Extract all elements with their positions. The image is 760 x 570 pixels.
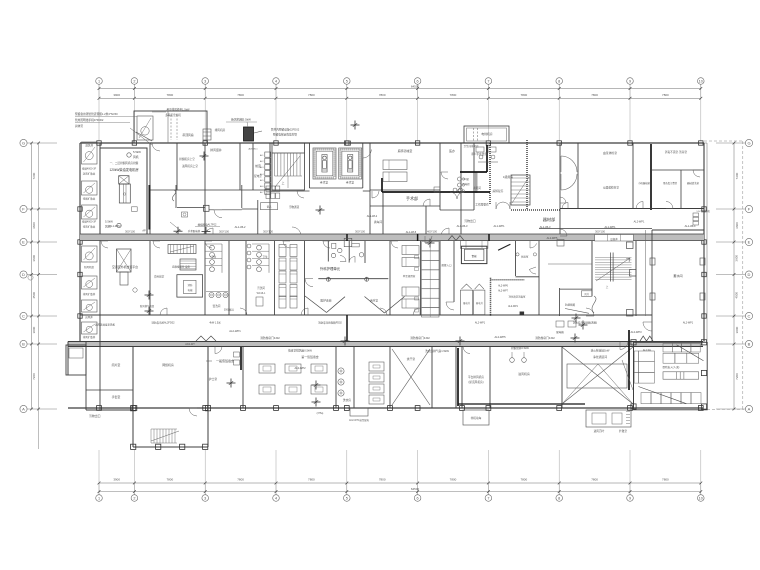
svg-text:疏散楼梯间·设备: 疏散楼梯间·设备 bbox=[172, 265, 190, 269]
svg-text:7: 7 bbox=[487, 497, 489, 501]
svg-text:10: 10 bbox=[699, 80, 703, 84]
svg-text:WC16-1: WC16-1 bbox=[257, 292, 266, 295]
svg-text:64500: 64500 bbox=[411, 84, 420, 88]
svg-text:排烟4000-3F: 排烟4000-3F bbox=[82, 220, 97, 224]
svg-text:配电箱: 配电箱 bbox=[556, 330, 564, 334]
svg-text:工作服更衣: 工作服更衣 bbox=[475, 203, 489, 207]
svg-text:(屋顶风机房): (屋顶风机房) bbox=[468, 380, 483, 384]
svg-text:AL1-WL3: AL1-WL3 bbox=[457, 224, 468, 228]
svg-text:上: 上 bbox=[282, 181, 285, 185]
svg-text:7800: 7800 bbox=[520, 478, 527, 482]
svg-text:7800: 7800 bbox=[591, 93, 598, 97]
svg-text:AL2-WP1: AL2-WP1 bbox=[634, 221, 645, 224]
svg-text:平台排风机房: 平台排风机房 bbox=[468, 375, 484, 379]
svg-text:医护走廊: 医护走廊 bbox=[320, 299, 331, 303]
svg-text:5: 5 bbox=[346, 497, 348, 501]
svg-text:管井内预留设备02FD02: 管井内预留设备02FD02 bbox=[271, 128, 300, 132]
svg-text:300*100: 300*100 bbox=[263, 230, 274, 234]
svg-text:AL2-WP1: AL2-WP1 bbox=[683, 322, 694, 325]
svg-text:消火栓连接1kW: 消火栓连接1kW bbox=[591, 349, 610, 353]
svg-text:污物出口: 污物出口 bbox=[89, 413, 101, 418]
svg-text:4500: 4500 bbox=[32, 292, 36, 299]
svg-text:3600: 3600 bbox=[32, 255, 36, 262]
svg-text:2: 2 bbox=[133, 80, 135, 84]
svg-text:一、二层排烟风机房排烟: 一、二层排烟风机房排烟 bbox=[110, 161, 139, 165]
svg-text:7800: 7800 bbox=[308, 93, 315, 97]
svg-text:消防卷帘门FJ02: 消防卷帘门FJ02 bbox=[260, 336, 280, 340]
svg-text:烘干室: 烘干室 bbox=[407, 357, 416, 361]
svg-text:污物出口: 污物出口 bbox=[464, 218, 476, 223]
svg-text:B: B bbox=[748, 342, 751, 347]
svg-text:进风井: 进风井 bbox=[85, 144, 93, 148]
svg-text:消毒不需室·暂存室: 消毒不需室·暂存室 bbox=[665, 150, 688, 154]
svg-text:AL2-WP7: AL2-WP7 bbox=[498, 290, 509, 293]
svg-text:AL2-WP2: AL2-WP2 bbox=[294, 366, 306, 370]
svg-text:新风机组5.5kW: 新风机组5.5kW bbox=[231, 117, 251, 122]
svg-text:送风扩散井: 送风扩散井 bbox=[83, 172, 96, 176]
svg-text:用各类污食堂: 用各类污食堂 bbox=[663, 181, 678, 185]
svg-text:AL1-WP2: AL1-WP2 bbox=[109, 224, 121, 228]
svg-text:前室: 前室 bbox=[255, 163, 261, 168]
svg-text:医院出入(人流): 医院出入(人流) bbox=[663, 365, 680, 369]
svg-text:手少手水监测: 手少手水监测 bbox=[471, 152, 487, 156]
svg-text:换车间: 换车间 bbox=[374, 220, 382, 224]
svg-text:7800: 7800 bbox=[520, 93, 527, 97]
svg-text:防潮储藏: 防潮储藏 bbox=[565, 303, 576, 307]
svg-text:一般值班宿舍: 一般值班宿舍 bbox=[216, 358, 234, 363]
svg-text:C: C bbox=[22, 314, 25, 319]
svg-text:手术部: 手术部 bbox=[406, 195, 418, 201]
svg-text:300*100: 300*100 bbox=[125, 230, 136, 234]
svg-text:3C配: 3C配 bbox=[463, 177, 469, 181]
svg-text:B: B bbox=[22, 342, 25, 347]
svg-text:排烟4000-3F: 排烟4000-3F bbox=[82, 167, 97, 171]
svg-text:器械清洗室: 器械清洗室 bbox=[687, 181, 700, 185]
svg-text:7800: 7800 bbox=[591, 478, 598, 482]
svg-text:排烟扩散井: 排烟扩散井 bbox=[83, 197, 96, 201]
svg-text:AC2-WT: AC2-WT bbox=[185, 343, 195, 346]
svg-text:7200: 7200 bbox=[735, 373, 739, 380]
svg-text:蓄水间: 蓄水间 bbox=[673, 273, 682, 278]
svg-text:7800: 7800 bbox=[662, 93, 669, 97]
svg-text:7800: 7800 bbox=[237, 478, 244, 482]
svg-text:换鞋间: 换鞋间 bbox=[473, 186, 481, 190]
svg-text:7800: 7800 bbox=[166, 93, 173, 97]
svg-text:麻醉复苏: 麻醉复苏 bbox=[493, 189, 504, 193]
svg-text:AL2-WP3: AL2-WP3 bbox=[630, 330, 642, 334]
svg-text:盥洗间: 盥洗间 bbox=[213, 304, 221, 308]
svg-text:8: 8 bbox=[558, 80, 560, 84]
svg-text:手术室: 手术室 bbox=[320, 180, 329, 184]
svg-text:400*100: 400*100 bbox=[427, 230, 438, 234]
svg-text:AL1-WL3: AL1-WL3 bbox=[540, 225, 551, 229]
svg-text:E: E bbox=[748, 240, 751, 245]
svg-text:新风机组: 新风机组 bbox=[84, 265, 95, 269]
svg-text:AL1-WP1: AL1-WP1 bbox=[493, 224, 505, 228]
svg-text:A: A bbox=[22, 407, 25, 412]
svg-text:进风百叶: 进风百叶 bbox=[594, 429, 605, 433]
svg-text:4: 4 bbox=[275, 80, 277, 84]
svg-text:AL1-WP1: AL1-WP1 bbox=[604, 225, 616, 229]
svg-text:D: D bbox=[748, 272, 751, 277]
svg-text:(375a): (375a) bbox=[317, 413, 324, 415]
svg-text:第一值班宿舍: 第一值班宿舍 bbox=[301, 354, 318, 359]
svg-text:E: E bbox=[22, 240, 25, 245]
svg-text:送风竖井接至风机: 送风竖井接至风机 bbox=[95, 323, 116, 327]
svg-text:1: 1 bbox=[98, 497, 100, 501]
svg-text:G: G bbox=[747, 141, 750, 146]
svg-text:3900: 3900 bbox=[113, 93, 120, 97]
svg-text:排风扩散井: 排风扩散井 bbox=[83, 335, 96, 339]
svg-text:7800: 7800 bbox=[379, 478, 386, 482]
svg-text:AL2-WP1: AL2-WP1 bbox=[475, 322, 486, 325]
svg-text:消防卷帘门FJ02: 消防卷帘门FJ02 bbox=[410, 336, 430, 340]
svg-text:污物通道: 污物通道 bbox=[289, 205, 300, 209]
svg-text:7800: 7800 bbox=[237, 93, 244, 97]
svg-text:5: 5 bbox=[346, 80, 348, 84]
svg-text:5.5kW: 5.5kW bbox=[105, 220, 113, 224]
svg-text:合用前室: 合用前室 bbox=[154, 275, 165, 279]
svg-text:AL1-WL2: AL1-WL2 bbox=[367, 215, 378, 218]
svg-text:9: 9 bbox=[629, 80, 631, 84]
svg-text:C: C bbox=[748, 314, 751, 319]
svg-text:吊顶排风机组1.5kW: 吊顶排风机组1.5kW bbox=[167, 108, 190, 112]
svg-text:6: 6 bbox=[417, 497, 419, 501]
svg-text:净化通道间: 净化通道间 bbox=[593, 355, 607, 359]
svg-text:排风扩散井: 排风扩散井 bbox=[83, 292, 96, 296]
svg-text:阅片室: 阅片室 bbox=[112, 362, 121, 367]
svg-text:多联机室外机: 多联机室外机 bbox=[165, 113, 181, 117]
svg-text:7: 7 bbox=[487, 80, 489, 84]
svg-text:7800: 7800 bbox=[450, 478, 457, 482]
svg-text:4500: 4500 bbox=[735, 292, 739, 299]
svg-text:300(确认): 300(确认) bbox=[224, 308, 235, 312]
svg-text:值班室排风扇0.5kW: 值班室排风扇0.5kW bbox=[288, 349, 312, 353]
svg-text:空调室外机放置平台: 空调室外机放置平台 bbox=[112, 264, 138, 269]
svg-text:由某体检室: 由某体检室 bbox=[603, 151, 617, 155]
svg-text:上: 上 bbox=[606, 285, 609, 289]
svg-text:外科护理单元: 外科护理单元 bbox=[320, 266, 341, 271]
svg-text:排烟竖井0.5kW: 排烟竖井0.5kW bbox=[511, 346, 529, 350]
svg-text:AL2-WP5: AL2-WP5 bbox=[494, 335, 506, 339]
svg-text:5.5kW: 5.5kW bbox=[133, 150, 141, 154]
svg-text:7800: 7800 bbox=[662, 478, 669, 482]
svg-text:护士室: 护士室 bbox=[209, 377, 218, 381]
svg-text:AL2-WL: AL2-WL bbox=[643, 349, 652, 352]
svg-text:AL2-WP5: AL2-WP5 bbox=[547, 237, 558, 240]
svg-text:7200: 7200 bbox=[32, 172, 36, 179]
svg-text:64500: 64500 bbox=[411, 487, 420, 491]
svg-text:进风机房: 进风机房 bbox=[518, 371, 530, 376]
svg-text:7800: 7800 bbox=[166, 478, 173, 482]
svg-text:D: D bbox=[22, 272, 25, 277]
svg-text:3: 3 bbox=[204, 497, 206, 501]
svg-text:排风竖井: 排风竖井 bbox=[210, 147, 222, 152]
svg-text:风机: 风机 bbox=[133, 155, 139, 159]
svg-text:3900: 3900 bbox=[113, 478, 120, 482]
svg-text:G: G bbox=[22, 141, 25, 146]
svg-text:手术室: 手术室 bbox=[346, 180, 355, 184]
svg-text:净化清洗消毒室: 净化清洗消毒室 bbox=[509, 295, 526, 299]
svg-text:7200: 7200 bbox=[735, 172, 739, 179]
svg-text:新风换气机组: 新风换气机组 bbox=[140, 304, 155, 308]
svg-text:设备井: 设备井 bbox=[610, 237, 618, 241]
svg-text:进风机房上空: 进风机房上空 bbox=[182, 164, 198, 168]
svg-text:AL1-WL2: AL1-WL2 bbox=[235, 225, 246, 229]
svg-text:手套室: 手套室 bbox=[112, 394, 121, 399]
svg-text:300*100: 300*100 bbox=[595, 230, 606, 234]
svg-text:300*100: 300*100 bbox=[219, 230, 230, 234]
svg-text:排烟机房上空: 排烟机房上空 bbox=[179, 157, 195, 161]
svg-text:洗衣房排气扇1.5kW: 洗衣房排气扇1.5kW bbox=[425, 349, 449, 353]
svg-text:AL1-WL4: AL1-WL4 bbox=[685, 224, 696, 228]
svg-text:8: 8 bbox=[558, 497, 560, 501]
svg-text:3000: 3000 bbox=[735, 326, 739, 333]
svg-text:AC2-WT1接至配电: AC2-WT1接至配电 bbox=[349, 418, 370, 422]
svg-text:仪器或检查室: 仪器或检查室 bbox=[603, 186, 619, 190]
svg-text:7800: 7800 bbox=[308, 478, 315, 482]
svg-text:电梯机房: 电梯机房 bbox=[481, 132, 492, 136]
svg-text:3: 3 bbox=[204, 80, 206, 84]
svg-text:电梯: 电梯 bbox=[188, 288, 193, 292]
svg-text:送风井: 送风井 bbox=[85, 315, 93, 319]
svg-text:污洗间: 污洗间 bbox=[257, 286, 265, 290]
svg-text:3600: 3600 bbox=[735, 222, 739, 229]
svg-text:配餐入口: 配餐入口 bbox=[441, 263, 452, 267]
svg-text:AL2-WP1: AL2-WP1 bbox=[508, 305, 519, 308]
svg-text:排风机房: 排风机房 bbox=[215, 128, 226, 132]
svg-text:小机器械室: 小机器械室 bbox=[638, 181, 651, 185]
svg-text:具体另: 具体另 bbox=[75, 124, 83, 128]
svg-text:单至规用室: 单至规用室 bbox=[403, 274, 416, 278]
svg-text:7800: 7800 bbox=[450, 93, 457, 97]
svg-text:消防卷帘按制箱(两侧): 消防卷帘按制箱(两侧) bbox=[573, 321, 597, 325]
svg-text:楼梯配电AL7F02: 楼梯配电AL7F02 bbox=[198, 223, 217, 227]
svg-text:消防: 消防 bbox=[188, 283, 193, 287]
svg-text:3000: 3000 bbox=[32, 326, 36, 333]
svg-text:排风扩散井: 排风扩散井 bbox=[83, 225, 96, 229]
svg-text:预留电梯远程监控管: 预留电梯远程监控管 bbox=[273, 133, 297, 137]
svg-text:3600: 3600 bbox=[32, 222, 36, 229]
svg-text:卫生: 卫生 bbox=[211, 255, 217, 259]
svg-text:9: 9 bbox=[629, 497, 631, 501]
svg-text:AL2-WP6: AL2-WP6 bbox=[498, 285, 509, 288]
svg-text:器材部: 器材部 bbox=[543, 216, 556, 223]
svg-text:非机动车: 非机动车 bbox=[471, 416, 482, 420]
svg-text:管用照明线手机07FD02: 管用照明线手机07FD02 bbox=[75, 118, 104, 122]
svg-text:4kW·1.5米: 4kW·1.5米 bbox=[209, 321, 221, 325]
svg-text:消防卷帘按AL2FD02: 消防卷帘按AL2FD02 bbox=[151, 321, 175, 325]
svg-text:卫生: 卫生 bbox=[262, 255, 268, 259]
svg-text:医办: 医办 bbox=[449, 148, 455, 153]
svg-text:6: 6 bbox=[417, 80, 419, 84]
svg-text:AL2-WP1: AL2-WP1 bbox=[229, 329, 241, 333]
svg-text:120kW柴油发电机房: 120kW柴油发电机房 bbox=[109, 167, 138, 172]
svg-text:300*100: 300*100 bbox=[355, 230, 366, 234]
svg-text:消防卷帘按制箱FD02: 消防卷帘按制箱FD02 bbox=[318, 321, 342, 325]
svg-text:AL8-WL1: AL8-WL1 bbox=[248, 148, 258, 151]
svg-text:AL1-WL5: AL1-WL5 bbox=[406, 231, 417, 234]
svg-text:1: 1 bbox=[98, 80, 100, 84]
svg-text:吊顶风扇: 吊顶风扇 bbox=[182, 133, 193, 137]
svg-text:卫生间排风扇: 卫生间排风扇 bbox=[463, 144, 479, 148]
svg-text:7800: 7800 bbox=[379, 93, 386, 97]
svg-text:7200: 7200 bbox=[32, 373, 36, 380]
svg-text:手术配电井: 手术配电井 bbox=[188, 229, 201, 233]
svg-text:消防卷帘门FJ02: 消防卷帘门FJ02 bbox=[535, 336, 555, 340]
svg-text:麻醉药械室: 麻醉药械室 bbox=[398, 148, 413, 153]
svg-text:化验室: 化验室 bbox=[521, 255, 529, 259]
svg-text:洗衣房: 洗衣房 bbox=[343, 398, 352, 402]
svg-text:A: A bbox=[748, 407, 751, 412]
svg-text:食梯: 食梯 bbox=[471, 254, 477, 258]
svg-text:4: 4 bbox=[275, 497, 277, 501]
svg-text:预留备用港管管道预留1.2米4*SC50: 预留备用港管管道预留1.2米4*SC50 bbox=[75, 112, 118, 116]
svg-text:扩散室: 扩散室 bbox=[619, 429, 627, 433]
svg-text:网络机房: 网络机房 bbox=[162, 362, 174, 367]
svg-text:AP: AP bbox=[142, 230, 146, 233]
svg-text:3600: 3600 bbox=[735, 255, 739, 262]
svg-text:10: 10 bbox=[699, 497, 703, 501]
svg-text:2: 2 bbox=[133, 497, 135, 501]
